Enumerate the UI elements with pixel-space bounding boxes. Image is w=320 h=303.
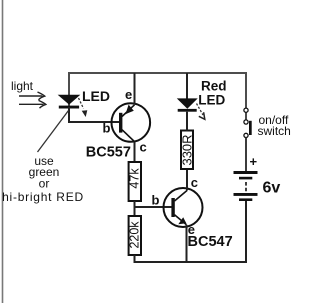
border frame left edge (2, 0, 4, 303)
wire R1 to R2 with junction to BC547 base (134, 201, 136, 217)
svg-text:6v: 6v (263, 179, 281, 196)
wire bottom rail (135, 201, 247, 262)
photodiode LED1 (light sensor) (59, 95, 79, 108)
svg-text:hi-bright RED: hi-bright RED (2, 190, 84, 204)
wire top rail (69, 73, 246, 122)
light arrow 1 (19, 92, 45, 100)
svg-text:+: + (250, 154, 258, 169)
wire BC557 collector to R1 (134, 142, 136, 162)
wire BC547 emitter to bottom rail (186, 225, 188, 262)
wire BC557 emitter to top rail (134, 73, 136, 105)
svg-text:330R: 330R (179, 134, 194, 165)
wire LED1 cathode to BC557 base (68, 107, 70, 122)
wire BC547 collector to R3 (186, 169, 188, 191)
switch S1 on/off (244, 108, 252, 137)
svg-text:c: c (140, 140, 147, 155)
svg-text:47k: 47k (128, 168, 142, 189)
LED1 indicator arrow (79, 98, 88, 117)
svg-text:e: e (125, 87, 132, 102)
resistor R2 220k (128, 216, 142, 255)
transistor Q2 BC547 (NPN) (164, 188, 203, 227)
svg-text:220k: 220k (128, 221, 142, 249)
svg-text:switch: switch (258, 124, 291, 138)
svg-text:LED: LED (198, 92, 225, 107)
wire switch to battery (245, 138, 247, 171)
svg-text:or: or (39, 176, 50, 190)
svg-text:b: b (152, 193, 160, 208)
battery B1 6v (234, 171, 258, 201)
svg-text:LED: LED (82, 88, 110, 104)
wire junction to BC547 base (135, 206, 172, 208)
leader line from note to LED1 (38, 111, 69, 153)
light arrow 2 (19, 100, 46, 108)
LED2 red LED (178, 73, 197, 131)
transistor Q1 BC557 (PNP) (112, 103, 151, 142)
resistor R1 47k (128, 162, 142, 201)
svg-text:c: c (191, 175, 198, 190)
note text: use green or hi-bright RED (2, 154, 84, 204)
svg-text:BC557: BC557 (86, 145, 131, 161)
resistor R3 330R (179, 131, 194, 170)
svg-text:b: b (103, 120, 111, 135)
svg-text:BC547: BC547 (188, 234, 233, 250)
svg-text:Red: Red (201, 78, 227, 93)
svg-text:light: light (11, 79, 34, 93)
LED2 emission arrow (197, 104, 205, 120)
